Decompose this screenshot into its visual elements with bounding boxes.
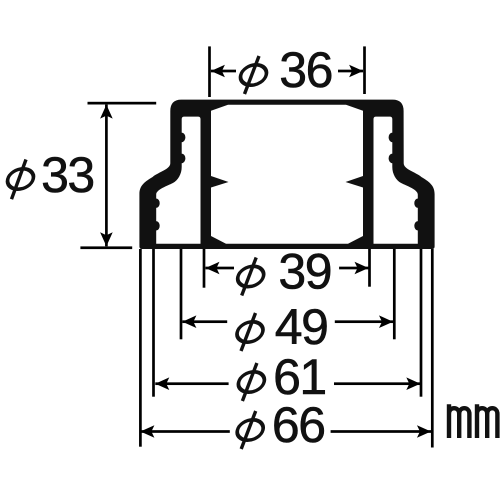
extension tick left bbox=[208, 46, 211, 97]
extension tick left bbox=[139, 249, 142, 447]
dimension line left stub bbox=[211, 70, 236, 73]
extension line top bbox=[88, 102, 157, 105]
dimension line right stub bbox=[331, 430, 431, 433]
extension line bottom bbox=[80, 246, 132, 249]
extension tick left bbox=[180, 249, 183, 339]
arrowhead left bbox=[211, 65, 225, 78]
extension tick right bbox=[431, 249, 434, 448]
phi symbol slash bbox=[12, 160, 27, 200]
dimension line left stub bbox=[155, 382, 228, 385]
dimension line vertical bbox=[105, 105, 108, 247]
phi symbol oval bbox=[235, 420, 265, 440]
arrowhead right bbox=[406, 377, 420, 390]
dimension phi66 (overall outer dia) bbox=[139, 249, 434, 453]
svg-text:49: 49 bbox=[275, 299, 328, 355]
arrowhead right bbox=[379, 315, 393, 328]
extension tick right bbox=[420, 249, 423, 397]
letter m second bbox=[477, 404, 497, 438]
dimension line left stub bbox=[206, 267, 235, 270]
svg-text:66: 66 bbox=[272, 397, 325, 453]
dimension line right stub bbox=[339, 267, 368, 270]
phi symbol slash bbox=[241, 313, 256, 351]
dimension line right stub bbox=[335, 320, 393, 323]
extension tick right bbox=[368, 249, 371, 287]
phi symbol oval bbox=[235, 266, 265, 286]
svg-text:33: 33 bbox=[41, 147, 94, 203]
arrowhead down bbox=[100, 232, 113, 246]
extension tick right bbox=[363, 46, 366, 94]
phi symbol slash bbox=[245, 56, 260, 94]
phi symbol oval bbox=[238, 65, 268, 85]
phi symbol oval bbox=[5, 169, 35, 189]
arrowhead left bbox=[182, 315, 196, 328]
phi symbol slash bbox=[242, 258, 257, 296]
phi symbol oval bbox=[236, 372, 266, 392]
phi symbol oval bbox=[235, 322, 265, 342]
dimension line left stub bbox=[182, 320, 227, 323]
unit label mm bbox=[449, 404, 497, 438]
arrowhead right bbox=[349, 65, 363, 78]
extension tick left bbox=[152, 249, 155, 397]
arrowhead left bbox=[155, 377, 169, 390]
dimension phi33 (height, left side) bbox=[5, 102, 156, 249]
extension tick left bbox=[203, 249, 206, 288]
dimension phi36 (top opening) bbox=[208, 42, 366, 98]
extension tick right bbox=[393, 249, 396, 339]
svg-text:39: 39 bbox=[278, 243, 331, 299]
letter m first bbox=[449, 404, 469, 438]
phi symbol slash bbox=[242, 363, 257, 401]
dimension line left stub bbox=[140, 430, 229, 433]
dimension phi61 (lower skirt inner dia) bbox=[152, 249, 422, 405]
dimension line right stub bbox=[338, 70, 363, 73]
phi symbol slash bbox=[241, 411, 256, 449]
arrowhead left bbox=[140, 425, 154, 438]
svg-text:36: 36 bbox=[279, 42, 332, 98]
dimension phi49 (upper skirt inner dia) bbox=[180, 249, 396, 355]
arrowhead right bbox=[417, 425, 431, 438]
arrowhead up bbox=[100, 105, 113, 119]
cap body cross-section (outer shell with stepped skirt, two skirt slots with grip ribs, inner sleeve with barbs) bbox=[139, 100, 434, 249]
arrowhead left bbox=[206, 262, 220, 275]
dimension line right stub bbox=[334, 382, 420, 385]
arrowhead right bbox=[355, 262, 369, 275]
dimension phi39 (sleeve outer dia) bbox=[203, 243, 371, 299]
